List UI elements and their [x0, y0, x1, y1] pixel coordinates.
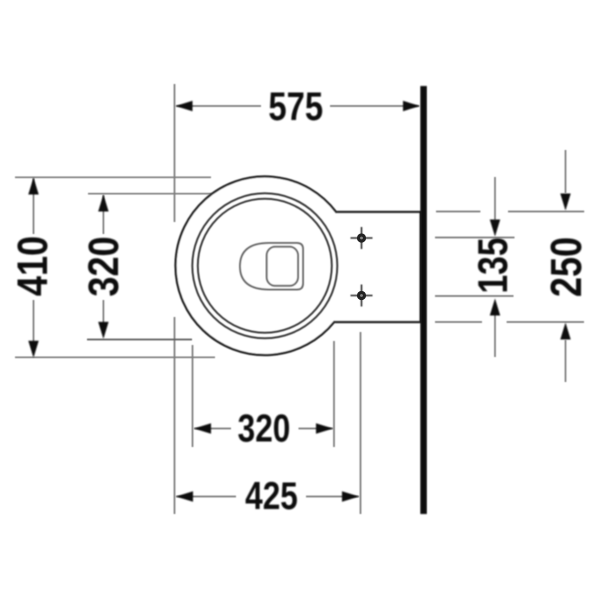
svg-text:320: 320	[80, 236, 128, 296]
svg-text:135: 135	[471, 237, 517, 293]
svg-text:425: 425	[245, 475, 298, 518]
svg-text:575: 575	[268, 84, 323, 129]
svg-text:250: 250	[541, 237, 590, 297]
svg-text:320: 320	[238, 407, 291, 450]
svg-text:410: 410	[9, 236, 57, 296]
